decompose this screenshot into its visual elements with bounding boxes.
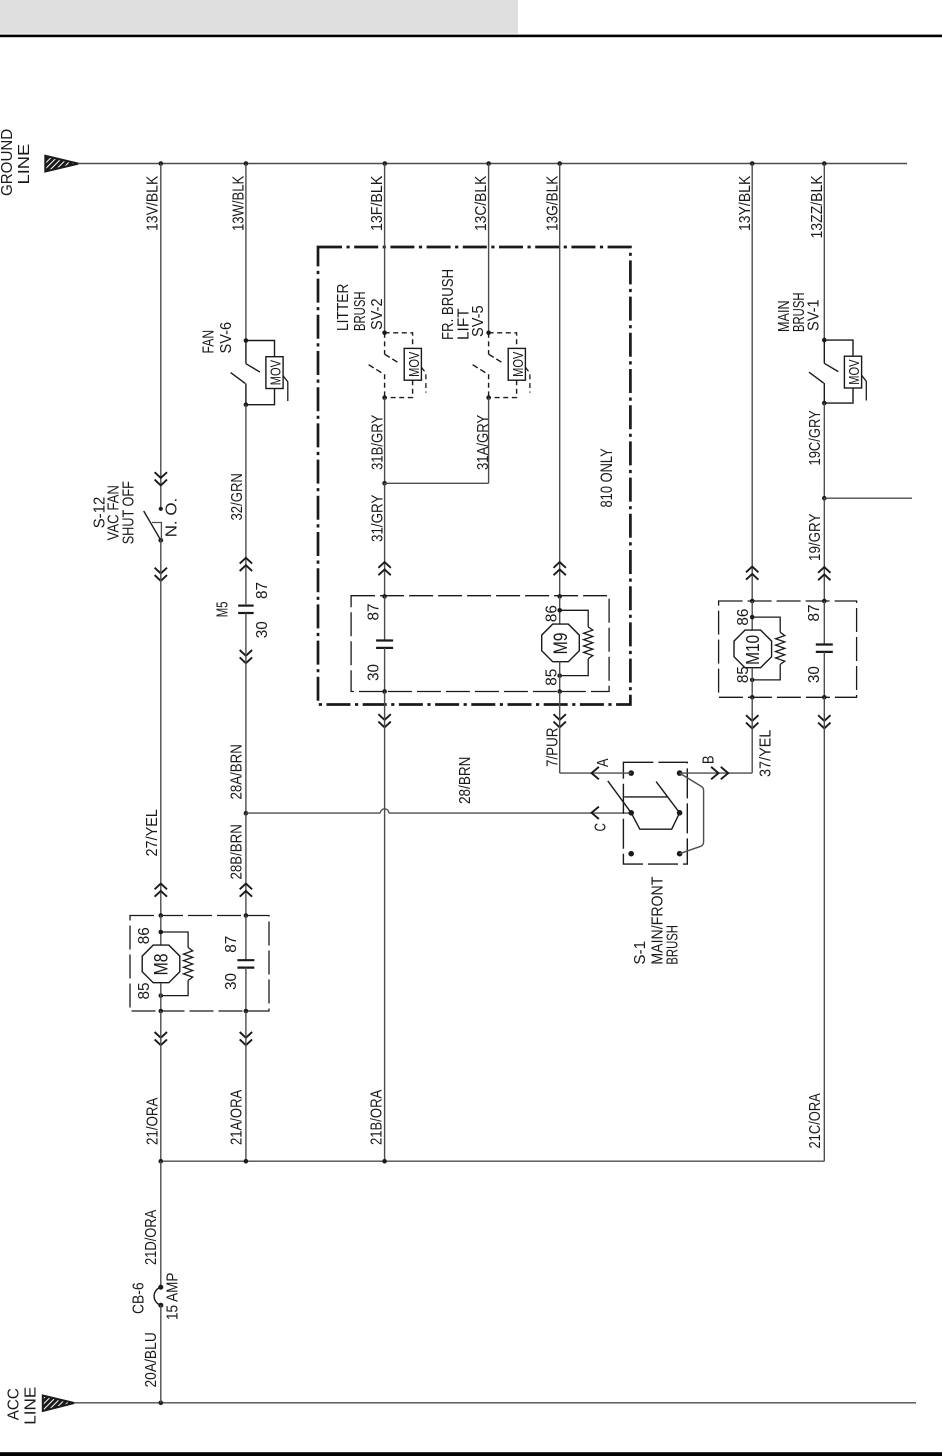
- svg-text:31/GRY: 31/GRY: [370, 495, 387, 542]
- svg-text:13W/BLK: 13W/BLK: [231, 175, 248, 231]
- dashed enclosure 810 ONLY: [318, 247, 630, 705]
- junction on ground line x=559.7: [557, 161, 562, 166]
- wire 21B/ORA: [384, 692, 386, 1162]
- svg-text:13F/BLK: 13F/BLK: [369, 175, 386, 231]
- svg-text:86: 86: [544, 605, 561, 622]
- connector chevrons below M5: [240, 650, 252, 656]
- svg-text:30: 30: [365, 664, 382, 681]
- S-1 wire B: [680, 772, 753, 774]
- svg-text:BRUSH: BRUSH: [352, 292, 369, 332]
- relay M10 box: [719, 601, 857, 697]
- connector chevrons above M8 contact: [240, 884, 252, 890]
- wire 13G/BLK: [559, 164, 561, 597]
- svg-text:M9: M9: [551, 632, 572, 654]
- svg-text:21/ORA: 21/ORA: [144, 1097, 161, 1145]
- wire 13C/BLK: [488, 164, 490, 333]
- S-1 internal blades: [608, 781, 631, 813]
- wire 31A/GRY: [488, 398, 490, 484]
- wire 31B/GRY: [384, 398, 386, 484]
- relay M8 coil: [159, 913, 164, 918]
- relay M10 contact: [822, 599, 827, 604]
- wire 19C/GRY: [823, 403, 825, 498]
- wire 28A/BRN: [245, 613, 247, 813]
- svg-text:30: 30: [223, 973, 240, 990]
- svg-text:LITTER: LITTER: [335, 284, 352, 331]
- svg-text:86: 86: [136, 927, 153, 944]
- svg-text:S-1: S-1: [632, 941, 649, 965]
- junction on ground line x=384.8: [383, 161, 388, 166]
- wire 28/BRN: [246, 812, 380, 814]
- junction on ground line x=245.9: [244, 161, 249, 166]
- svg-text:20A/BLU: 20A/BLU: [143, 1332, 160, 1387]
- switch S-12 VAC FAN SHUT OFF: [159, 507, 163, 511]
- svg-text:N. O.: N. O.: [164, 498, 181, 538]
- svg-text:MOV: MOV: [268, 360, 285, 385]
- connector chevrons above M8 coil: [155, 884, 167, 890]
- svg-text:21A/ORA: 21A/ORA: [228, 1089, 245, 1145]
- svg-text:SV-6: SV-6: [218, 322, 235, 354]
- connector chevrons below M10: [746, 715, 758, 721]
- svg-text:85: 85: [544, 669, 561, 686]
- wire 21D/ORA: [160, 1161, 162, 1287]
- junction on ground line x=824.3: [822, 161, 827, 166]
- svg-text:GROUND: GROUND: [0, 129, 16, 196]
- svg-text:21C/ORA: 21C/ORA: [807, 1093, 824, 1149]
- wire 20A/BLU: [160, 1305, 162, 1403]
- svg-text:MOV: MOV: [846, 360, 863, 385]
- svg-text:30: 30: [806, 666, 823, 683]
- svg-text:13G/BLK: 13G/BLK: [545, 175, 562, 231]
- connector chevrons above M10 contact: [818, 567, 830, 573]
- svg-text:SV-2: SV-2: [369, 298, 386, 330]
- wire 21/ORA: [160, 1011, 162, 1161]
- wire 19/GRY: [823, 498, 825, 601]
- svg-text:28B/BRN: 28B/BRN: [229, 824, 246, 879]
- junction on ground line x=488.6: [486, 161, 491, 166]
- svg-text:C: C: [592, 823, 609, 832]
- wire 13Y/BLK: [751, 164, 753, 602]
- relay M10 coil: [750, 599, 755, 604]
- svg-text:SV-1: SV-1: [806, 299, 823, 331]
- circuit breaker CB-6 15 AMP: [158, 1285, 163, 1290]
- wire 21 ORA bus: [161, 1160, 825, 1162]
- svg-text:M8: M8: [152, 953, 173, 975]
- wire 32/GRN: [245, 405, 247, 605]
- bottom rule: [0, 1452, 942, 1456]
- svg-text:ACC: ACC: [6, 1388, 23, 1420]
- svg-text:85: 85: [735, 666, 752, 683]
- svg-text:MOV: MOV: [406, 352, 423, 377]
- svg-text:15 AMP: 15 AMP: [164, 1273, 181, 1320]
- connector chevrons above M9 contact: [378, 562, 390, 568]
- relay M9 box: [351, 596, 609, 692]
- wire 27/YEL: [160, 540, 162, 915]
- wire 31/GRY: [384, 483, 386, 596]
- svg-text:810 ONLY: 810 ONLY: [597, 448, 616, 507]
- svg-text:M5: M5: [215, 602, 232, 618]
- wire 13ZZ/BLK: [823, 164, 825, 341]
- wire 28B/BRN: [245, 813, 247, 915]
- svg-text:BRUSH: BRUSH: [665, 925, 682, 965]
- node 19 junction with stub: [822, 496, 827, 501]
- svg-text:27/YEL: 27/YEL: [144, 809, 161, 857]
- svg-text:7/PUR: 7/PUR: [545, 728, 562, 768]
- wire 37/YEL: [751, 697, 753, 773]
- ACC line wire: [74, 1402, 916, 1404]
- wire 13W/BLK: [245, 164, 247, 341]
- junction on ground line x=160.8: [159, 161, 164, 166]
- wire 21A/ORA: [245, 1011, 247, 1161]
- svg-text:A: A: [595, 758, 612, 767]
- svg-text:LINE: LINE: [16, 144, 33, 185]
- ground symbol triangle: [45, 156, 78, 172]
- connector chevrons above M10 coil: [746, 567, 758, 573]
- S-1 wire A: [560, 772, 632, 774]
- connector chevrons above S-12: [155, 472, 167, 478]
- svg-text:19/GRY: 19/GRY: [807, 514, 824, 561]
- svg-text:87: 87: [223, 936, 240, 953]
- svg-text:21D/ORA: 21D/ORA: [143, 1209, 160, 1265]
- svg-text:13V/BLK: 13V/BLK: [145, 175, 162, 231]
- svg-text:B: B: [701, 756, 718, 765]
- svg-text:FR. BRUSH: FR. BRUSH: [440, 269, 457, 340]
- node 28 junction: [244, 811, 249, 816]
- relay M9 coil: [557, 594, 562, 599]
- svg-text:87: 87: [806, 605, 823, 622]
- svg-text:31A/GRY: 31A/GRY: [475, 415, 492, 470]
- connector chevrons above M9 coil: [554, 562, 566, 568]
- svg-text:28A/BRN: 28A/BRN: [229, 744, 246, 799]
- svg-text:LINE: LINE: [22, 1387, 39, 1425]
- svg-text:13ZZ/BLK: 13ZZ/BLK: [809, 175, 826, 239]
- S-1 external jumper B: [680, 773, 704, 854]
- wire 7/PUR: [559, 692, 561, 774]
- S-1 terminal dots: [628, 770, 634, 776]
- junction on ground line x=752.2: [750, 161, 755, 166]
- relay M8 box: [130, 916, 269, 1012]
- svg-text:13Y/BLK: 13Y/BLK: [737, 175, 754, 231]
- wire 21C/ORA: [823, 697, 825, 1161]
- ACC symbol triangle: [43, 1396, 74, 1412]
- svg-text:86: 86: [735, 609, 752, 626]
- ground line wire: [78, 163, 907, 165]
- switch S-1 MAIN/FRONT BRUSH box: [623, 762, 687, 864]
- junction on ACC line: [159, 1401, 164, 1406]
- node 31 junction: [382, 481, 387, 486]
- header grey bar: [0, 0, 518, 34]
- S-1 wire C arrow: [592, 807, 599, 819]
- connector chevrons above M5: [240, 558, 252, 564]
- svg-text:MOV: MOV: [510, 352, 527, 377]
- svg-text:SV-5: SV-5: [470, 305, 487, 337]
- svg-text:30: 30: [254, 621, 271, 638]
- svg-text:31B/GRY: 31B/GRY: [370, 415, 387, 470]
- relay M9 contact: [382, 594, 387, 599]
- svg-text:32/GRN: 32/GRN: [229, 473, 246, 520]
- svg-text:M10: M10: [743, 635, 763, 665]
- top rule: [0, 35, 942, 38]
- connector chevrons below M9: [378, 714, 390, 720]
- relay M8 contact: [245, 916, 247, 961]
- wire 13F/BLK: [384, 164, 386, 333]
- wire 13V/BLK: [160, 164, 162, 509]
- svg-text:87: 87: [365, 604, 382, 621]
- svg-text:85: 85: [136, 983, 153, 1000]
- svg-text:13C/BLK: 13C/BLK: [473, 175, 490, 231]
- svg-text:FAN: FAN: [200, 330, 217, 354]
- svg-text:28/BRN: 28/BRN: [457, 757, 474, 804]
- svg-text:21B/ORA: 21B/ORA: [369, 1089, 386, 1145]
- svg-text:87: 87: [254, 582, 271, 599]
- svg-text:CB-6: CB-6: [130, 1282, 147, 1314]
- connector chevrons below M8: [155, 1032, 167, 1038]
- svg-text:19C/GRY: 19C/GRY: [807, 410, 824, 465]
- svg-text:37/YEL: 37/YEL: [758, 729, 775, 777]
- svg-text:SHUT OFF: SHUT OFF: [120, 481, 137, 544]
- connector chevrons below S-12: [155, 568, 167, 574]
